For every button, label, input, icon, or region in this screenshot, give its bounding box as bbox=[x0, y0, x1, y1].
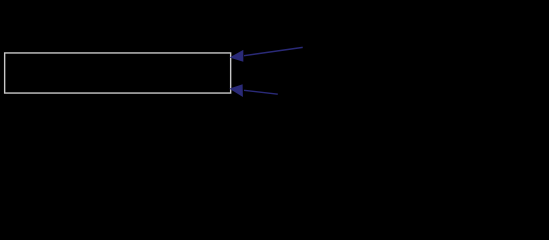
wire bbox=[244, 90, 278, 94]
arrowhead 1 bbox=[230, 50, 244, 62]
arrowhead 2 bbox=[229, 84, 243, 97]
arrow 1 (upper callout arrow) bbox=[230, 47, 303, 61]
wire bbox=[244, 47, 303, 55]
text input box outline bbox=[5, 53, 231, 93]
arrow 2 (lower callout arrow) bbox=[229, 84, 277, 97]
